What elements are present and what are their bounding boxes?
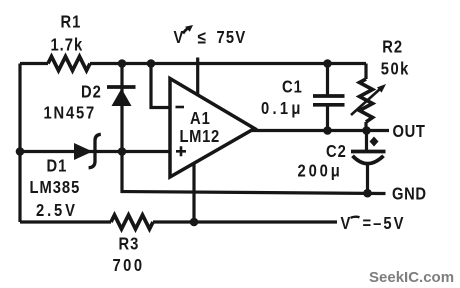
svg-text:0.1μ: 0.1μ — [261, 99, 304, 119]
svg-text:OUT: OUT — [393, 122, 426, 142]
svg-text:V: V — [174, 28, 185, 48]
svg-text:2.5V: 2.5V — [36, 201, 78, 221]
svg-text:700: 700 — [113, 256, 145, 276]
svg-text:SeekIC.com: SeekIC.com — [369, 269, 454, 286]
svg-text:=–5V: =–5V — [363, 214, 406, 234]
svg-text:A1: A1 — [190, 109, 211, 129]
svg-text:1.7k: 1.7k — [51, 35, 84, 55]
svg-text:D2: D2 — [81, 82, 102, 102]
svg-text:D1: D1 — [47, 156, 68, 176]
svg-text:GND: GND — [392, 184, 427, 204]
svg-text:C1: C1 — [282, 77, 303, 97]
svg-text:75V: 75V — [217, 28, 247, 48]
svg-text:LM12: LM12 — [180, 127, 220, 147]
svg-text:R3: R3 — [119, 234, 140, 254]
svg-text:LM385: LM385 — [30, 178, 81, 198]
svg-text:200μ: 200μ — [298, 161, 343, 181]
svg-text:V: V — [341, 214, 352, 234]
svg-text:R1: R1 — [61, 12, 82, 32]
svg-text:C2: C2 — [326, 142, 347, 162]
svg-text:1N457: 1N457 — [44, 103, 96, 123]
svg-text:≤: ≤ — [198, 27, 206, 47]
svg-text:50k: 50k — [381, 59, 410, 79]
svg-text:R2: R2 — [382, 37, 403, 57]
